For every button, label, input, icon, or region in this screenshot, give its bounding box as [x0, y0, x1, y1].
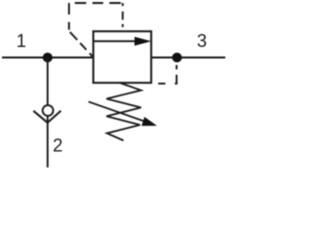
wire: inlet line (port 1) — [2, 57, 93, 59]
adjustment arrow across spring — [89, 102, 158, 126]
pilot line (dashed): diagonal from inlet toward upper left — [69, 31, 92, 56]
spring — [107, 83, 142, 141]
wire: line to port 2 — [47, 116, 49, 168]
pilot line (dashed): left vertical riser — [68, 3, 70, 31]
wire: outlet line (port 3) — [151, 57, 225, 59]
svg-text:1: 1 — [16, 31, 26, 51]
pilot drain line (dashed) from valve to outlet junction — [151, 58, 176, 84]
junction dot on inlet line — [43, 53, 53, 63]
pilot line (dashed): drop to spring chamber at valve top — [122, 3, 124, 31]
pilot line (dashed): top horizontal run — [69, 2, 123, 4]
valve body (envelope) — [93, 31, 151, 83]
check valve ball — [43, 105, 54, 116]
flow path arrow inside valve — [93, 37, 151, 46]
wire: branch down from inlet junction to check valve — [47, 58, 49, 106]
junction dot on outlet line — [172, 53, 182, 63]
check valve seat — [33, 111, 61, 123]
svg-text:3: 3 — [197, 31, 207, 51]
svg-text:2: 2 — [53, 136, 63, 156]
